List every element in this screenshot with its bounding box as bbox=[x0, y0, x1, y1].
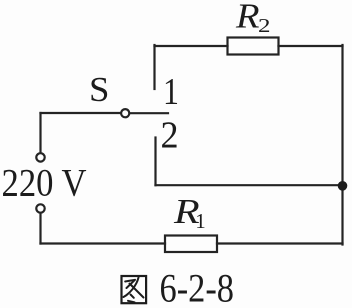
terminal circle lower (220 V) bbox=[36, 204, 44, 212]
svg-text:S: S bbox=[89, 70, 109, 109]
switch S lever bbox=[130, 112, 168, 114]
resistor R1 bbox=[165, 236, 217, 253]
resistor R2 bbox=[228, 38, 279, 55]
wire: left rail upper (to top terminal) bbox=[39, 113, 41, 152]
svg-text:220 V: 220 V bbox=[2, 162, 87, 205]
svg-text:2: 2 bbox=[161, 115, 179, 157]
wire: R2 to top-right corner bbox=[279, 45, 343, 47]
wire: switch feed from left rail to pivot bbox=[41, 112, 122, 114]
wire: contact 1 stub (vertical) bbox=[153, 45, 155, 89]
svg-text:R: R bbox=[235, 0, 260, 35]
switch S pivot circle bbox=[121, 109, 129, 117]
svg-text:1: 1 bbox=[163, 70, 179, 112]
wire: middle horizontal from contact 2 to junction bbox=[156, 184, 343, 186]
svg-text:1: 1 bbox=[195, 209, 206, 233]
svg-text:6-2-8: 6-2-8 bbox=[160, 266, 235, 308]
wire: bottom left segment to R1 bbox=[41, 242, 166, 244]
svg-text:2: 2 bbox=[258, 14, 270, 36]
wire: left rail lower (terminal down to bottom wire) bbox=[39, 214, 41, 244]
caption glyph 图 (drawn) bbox=[122, 276, 147, 303]
terminal circle upper (220 V) bbox=[36, 153, 44, 161]
junction node dot bbox=[338, 181, 348, 191]
wire: top left segment from contact 1 corner to R2 bbox=[155, 45, 228, 47]
wire: right vertical rail bbox=[341, 45, 343, 245]
wire: contact 2 stub (vertical) bbox=[154, 138, 156, 186]
wire: R1 to bottom-right corner bbox=[217, 242, 343, 244]
